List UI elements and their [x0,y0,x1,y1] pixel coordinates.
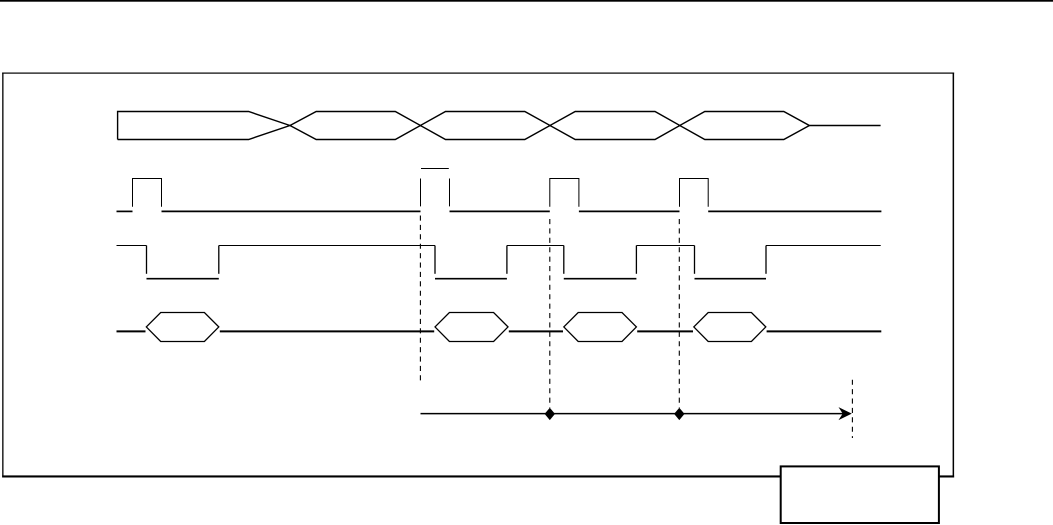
dashed marker line D1 [419,216,421,385]
legend box [781,466,939,523]
dashed marker line D4 [851,380,853,438]
row 3 high-level wire [117,245,881,247]
hexagon H4 [694,313,766,342]
overbar above P2 [421,168,449,170]
time axis arrow [421,413,844,415]
outer frame [2,73,954,478]
dashed marker line D3 [678,219,680,408]
bus waveform (row 1) [118,112,881,140]
hexagon H3 [564,313,637,342]
row 3 low-level wire [147,278,767,280]
row 4 midline wire [117,330,882,332]
hexagon H1 [146,313,219,342]
pulse P1 [133,179,162,207]
top rule [0,0,1053,2]
pulse P4 [680,179,709,207]
hexagon H2 [435,313,508,342]
diamond marker M1 [545,408,555,420]
row 3 edge verticals [147,246,767,274]
row 2 baseline wire [117,210,882,212]
pulse P3 [550,179,579,207]
pulse P2 (open top) [421,179,450,207]
arrowhead [839,407,852,420]
dashed marker line D2 [549,219,551,408]
diamond marker M2 [674,408,684,420]
